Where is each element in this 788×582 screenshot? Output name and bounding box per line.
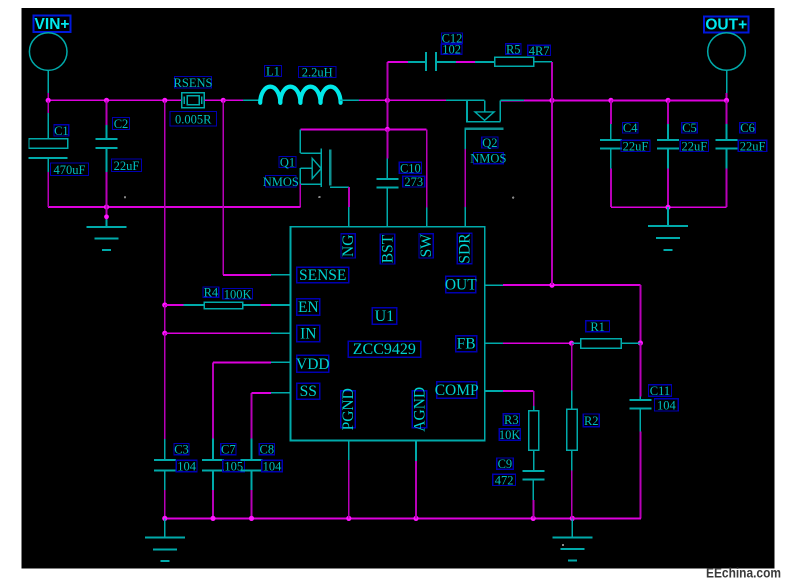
- pin BST: [380, 234, 397, 264]
- label 22uF C6 value: [738, 139, 767, 153]
- ground GND4: [552, 518, 592, 560]
- svg-text:Q1: Q1: [280, 156, 295, 170]
- label U1: [372, 308, 397, 325]
- label Q2 NMOS: [470, 152, 506, 166]
- svg-text:C2: C2: [114, 117, 129, 131]
- svg-text:VIN+: VIN+: [35, 16, 70, 33]
- label R2: [583, 414, 599, 428]
- wire ground bus right corner: [572, 517, 641, 519]
- svg-text:R5: R5: [506, 42, 521, 56]
- label 2.2uH: [299, 66, 337, 80]
- svg-text:105: 105: [224, 459, 243, 473]
- wire L1 to SW node: [359, 98, 390, 103]
- resistor RSENS: [182, 93, 204, 108]
- resistor R4: [165, 302, 291, 308]
- wire SW node to Q2: [387, 99, 446, 101]
- svg-text:BST: BST: [380, 234, 397, 263]
- label RSENS: [174, 76, 213, 90]
- svg-text:U1: U1: [375, 308, 395, 325]
- svg-text:10K: 10K: [499, 428, 521, 442]
- label L1: [265, 65, 282, 79]
- label 104 C8 value: [262, 459, 283, 473]
- ground GND2: [648, 207, 688, 250]
- wire VIN net vertical: [162, 100, 167, 439]
- svg-text:22uF: 22uF: [740, 139, 766, 153]
- pin SW: [418, 234, 435, 258]
- svg-text:VDD: VDD: [296, 356, 330, 373]
- capacitor C10: [377, 129, 399, 226]
- capacitor C6: [716, 100, 738, 207]
- wire output cap rail: [611, 205, 727, 210]
- label R1: [586, 320, 610, 334]
- label 22uF C2 value: [112, 159, 142, 173]
- label 102 C12 value: [441, 43, 462, 57]
- svg-text:C7: C7: [221, 443, 236, 457]
- label C4: [622, 121, 638, 135]
- port VIN+: [29, 16, 70, 71]
- wire SS net: [252, 393, 291, 439]
- svg-text:PGND: PGND: [340, 388, 357, 430]
- label 104 C3 value: [176, 459, 197, 473]
- label C10: [399, 161, 421, 175]
- pin VDD: [296, 355, 330, 373]
- label C12: [442, 32, 463, 46]
- svg-text:22uF: 22uF: [623, 139, 649, 153]
- pin SS: [297, 383, 320, 400]
- capacitor C9: [523, 471, 545, 519]
- svg-text:104: 104: [657, 398, 677, 412]
- capacitor C4: [600, 100, 622, 207]
- svg-text:C1: C1: [54, 124, 69, 138]
- label C2: [113, 117, 130, 131]
- ground GND3: [145, 518, 185, 561]
- pin FB: [456, 336, 477, 353]
- wire COMP net: [485, 391, 534, 406]
- label C8: [259, 443, 274, 457]
- label Q1 NMOS: [263, 175, 299, 189]
- svg-text:22uF: 22uF: [681, 139, 707, 153]
- svg-text:C8: C8: [260, 443, 275, 457]
- svg-text:SENSE: SENSE: [299, 267, 346, 284]
- svg-text:IN: IN: [300, 325, 316, 342]
- capacitor C2: [96, 100, 118, 207]
- wire Q1 source to NG pin: [330, 187, 349, 227]
- op-amp U1 ZCC9429 IC body: [291, 227, 485, 441]
- label C6: [740, 121, 756, 135]
- svg-text:C9: C9: [498, 457, 513, 471]
- label R5: [506, 42, 522, 56]
- label 22uF C5 value: [680, 139, 708, 153]
- svg-text:C3: C3: [174, 443, 189, 457]
- label C1: [54, 124, 69, 138]
- svg-text:NMOS: NMOS: [470, 152, 506, 166]
- node grid artifacts: [124, 196, 564, 546]
- capacitor C11: [630, 343, 652, 518]
- wire Q1 gate down to GND rail: [299, 184, 301, 207]
- svg-text:104: 104: [177, 459, 197, 473]
- wire R5 to OUT bus: [534, 62, 553, 101]
- watermark EEchina.com: [706, 566, 781, 581]
- svg-text:EEchina.com: EEchina.com: [706, 566, 781, 581]
- svg-text:R2: R2: [584, 414, 599, 428]
- label C9: [497, 457, 514, 471]
- label C7: [221, 443, 236, 457]
- wire C1 C2 ground rail: [48, 204, 300, 209]
- label 470uF: [51, 163, 89, 177]
- pin IN: [297, 325, 320, 342]
- wire C12 to R5: [436, 61, 495, 63]
- svg-text:COMP: COMP: [435, 382, 479, 399]
- svg-text:EN: EN: [298, 299, 319, 316]
- label 105 C7 value: [223, 459, 245, 473]
- label 472 C9 value: [493, 473, 516, 487]
- svg-text:NMOS: NMOS: [263, 175, 299, 189]
- pin COMP: [435, 382, 479, 399]
- svg-text:RSENS: RSENS: [174, 76, 213, 90]
- svg-text:C6: C6: [740, 121, 755, 135]
- wire OUT pin to output net: [485, 283, 641, 288]
- svg-text:R4: R4: [204, 286, 219, 300]
- wire PGND pin down: [348, 441, 350, 519]
- svg-text:SS: SS: [300, 383, 317, 400]
- wire VIN+ stem: [47, 70, 49, 100]
- transistor Q2: [446, 100, 524, 128]
- label 104 C11 value: [655, 398, 679, 412]
- wire SW to C12: [387, 62, 426, 100]
- resistor R5: [495, 57, 534, 66]
- svg-text:FB: FB: [457, 336, 476, 353]
- ground GND1: [87, 207, 127, 250]
- label Q1: [279, 156, 296, 170]
- svg-text:4R7: 4R7: [529, 44, 550, 58]
- label 100K: [223, 287, 253, 301]
- wire FB net: [485, 341, 575, 346]
- label Q2: [482, 136, 498, 150]
- resistor R3: [529, 406, 539, 471]
- svg-text:ZCC9429: ZCC9429: [353, 341, 416, 358]
- pin OUT: [445, 276, 477, 293]
- svg-text:C4: C4: [623, 121, 638, 135]
- pin EN: [297, 299, 320, 316]
- svg-text:Q2: Q2: [482, 136, 497, 150]
- wire output net down to R1: [638, 285, 643, 346]
- svg-text:2.2uH: 2.2uH: [302, 66, 333, 80]
- svg-text:100K: 100K: [224, 287, 252, 301]
- capacitor C1 polarized: [29, 100, 68, 207]
- svg-text:AGND: AGND: [411, 387, 428, 432]
- wire VIN bus: [46, 98, 182, 103]
- wire SW to SW pin: [387, 129, 426, 226]
- svg-text:OUT: OUT: [445, 276, 477, 293]
- svg-text:R3: R3: [504, 413, 519, 427]
- label 10K: [499, 428, 521, 442]
- wire VDD net: [213, 362, 291, 438]
- svg-text:104: 104: [263, 459, 283, 473]
- label 4R7: [528, 44, 551, 58]
- svg-text:0.005R: 0.005R: [175, 112, 212, 126]
- pin SDR: [457, 233, 474, 264]
- pin AGND: [411, 387, 428, 432]
- svg-text:C10: C10: [400, 161, 421, 175]
- label R4: [203, 286, 219, 300]
- wire Q2 gate to SDR pin: [464, 129, 466, 227]
- wire OUT+ stem: [726, 70, 728, 100]
- capacitor C3: [154, 439, 176, 518]
- capacitor C8: [241, 439, 263, 519]
- wire SW to Q1 drain: [300, 128, 387, 130]
- wire Q2 to OUT bus: [501, 98, 729, 103]
- wire IN net: [165, 332, 291, 334]
- svg-text:L1: L1: [266, 65, 280, 79]
- capacitor C7: [202, 439, 224, 519]
- svg-text:C5: C5: [682, 121, 697, 135]
- svg-text:R1: R1: [590, 320, 605, 334]
- pin SENSE: [297, 267, 349, 284]
- svg-text:102: 102: [442, 43, 461, 57]
- svg-text:22uF: 22uF: [114, 159, 140, 173]
- svg-text:470uF: 470uF: [54, 163, 86, 177]
- label 0.005R: [170, 112, 217, 127]
- transistor Q1: [300, 129, 330, 187]
- port OUT+: [704, 17, 749, 71]
- inductor L1: [243, 87, 359, 103]
- capacitor C12: [426, 52, 436, 71]
- pin PGND: [340, 388, 357, 430]
- label 22uF C4 value: [621, 139, 650, 153]
- pin NG: [340, 234, 357, 258]
- svg-text:NG: NG: [340, 235, 357, 257]
- wire ground bus: [162, 516, 641, 521]
- wire RSENS to L1: [204, 98, 260, 103]
- svg-text:472: 472: [495, 473, 514, 487]
- wire AGND pin down: [415, 441, 417, 519]
- label C5: [682, 121, 698, 135]
- resistor R2: [567, 343, 577, 518]
- svg-text:SDR: SDR: [457, 233, 474, 264]
- label C11: [649, 384, 672, 398]
- capacitor C5: [657, 100, 679, 207]
- svg-text:SW: SW: [418, 234, 435, 258]
- wire SW node down: [385, 100, 390, 132]
- svg-text:C11: C11: [650, 384, 670, 398]
- label C3: [174, 443, 189, 457]
- label 273 C10 value: [403, 175, 425, 189]
- label R3: [503, 413, 519, 427]
- wire OUT bus down: [551, 100, 553, 285]
- wire SENSE net: [223, 100, 290, 275]
- svg-text:OUT+: OUT+: [705, 17, 747, 34]
- label ZCC9429: [348, 341, 420, 358]
- resistor R1: [572, 339, 641, 349]
- svg-text:273: 273: [404, 175, 423, 189]
